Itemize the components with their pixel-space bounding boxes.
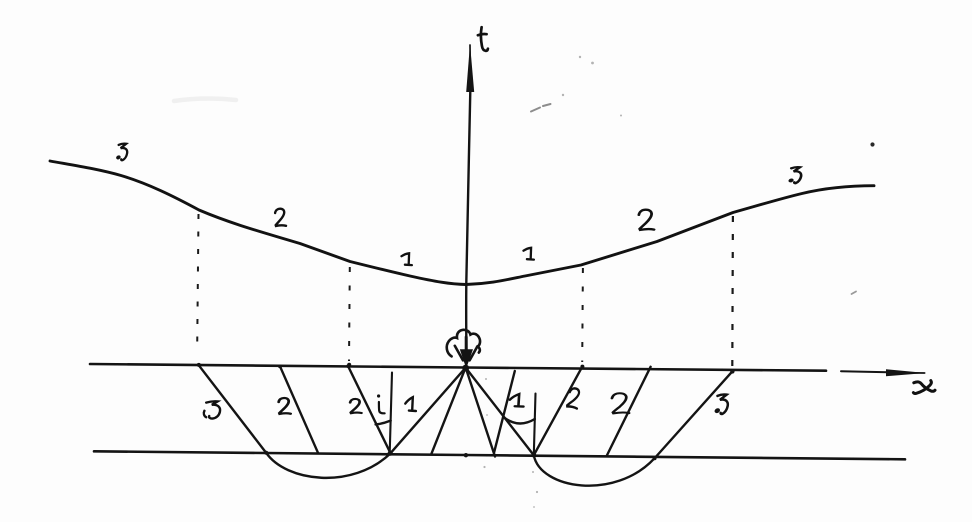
up-going ray 3 (left) xyxy=(199,365,266,452)
noise: small gray mark right xyxy=(852,292,857,295)
t-axis arrowhead xyxy=(466,44,474,92)
ray label 3 (lower left) xyxy=(204,401,220,418)
up-going ray 1 (right) xyxy=(494,371,515,453)
junction dot ray2a-surface (left) xyxy=(278,365,282,369)
down-going ray 2 (right) xyxy=(466,368,534,455)
up-going ray 3 (right) xyxy=(655,371,733,458)
x-axis arrowhead xyxy=(886,369,926,376)
ray label 2 (lower left, second) xyxy=(350,399,361,413)
curve segment label 1 (top left) xyxy=(402,253,412,265)
explosion center stem xyxy=(465,337,468,352)
junction dot right hub xyxy=(531,453,536,458)
x-axis gap segment xyxy=(841,371,888,372)
up-going ray 2b (right) xyxy=(607,367,651,456)
ray label 2 (lower right, first) xyxy=(566,387,581,408)
explosion inner stroke left xyxy=(455,346,463,361)
vertical reference line (right) xyxy=(534,394,536,456)
explosion cloud outline xyxy=(447,330,480,357)
angle label i (lower left) xyxy=(377,394,385,413)
dashed line D1 xyxy=(197,214,198,346)
junction dot arc left start xyxy=(264,451,268,455)
travel-time curve xyxy=(50,161,874,285)
curve segment label 2 (top left) xyxy=(275,209,286,226)
noise: gray scratch xyxy=(531,104,551,112)
diving-wave arc (left) xyxy=(266,453,391,478)
up-going ray 2b (left) xyxy=(348,366,391,453)
junction dot ray3-surface (left) xyxy=(197,363,201,367)
curve segment label 1 (top right) xyxy=(524,248,534,260)
x-axis surface line xyxy=(90,364,826,371)
ray label 1 (lower left) xyxy=(405,397,416,411)
source point blob xyxy=(462,365,469,372)
dashed line D2 xyxy=(348,267,351,361)
axis label t xyxy=(478,27,488,51)
curve segment label 3 (top left) xyxy=(115,144,127,161)
junction dot ray2b-surface (left) xyxy=(346,364,350,368)
vertical reference line (left) xyxy=(390,373,392,454)
ray label 3 (lower right) xyxy=(714,394,728,414)
dashed line D4 xyxy=(731,216,734,366)
junction dot interface below source xyxy=(464,453,468,457)
noise: light specks xyxy=(483,56,622,508)
curve segment label 3 (top right) xyxy=(788,167,802,183)
axis label x xyxy=(913,381,935,394)
junction dot D2-surface xyxy=(347,363,351,367)
lower interface line xyxy=(94,451,905,459)
junction dot arc right end xyxy=(653,456,657,460)
junction dot B (left hub) xyxy=(388,451,393,456)
junction dot D3-surface xyxy=(580,365,584,369)
ray label 2 (lower left, first) xyxy=(279,398,291,414)
noise: faint smudge top left xyxy=(174,98,236,101)
down-going ray to B (left) xyxy=(391,368,466,453)
explosion inner stroke right xyxy=(470,346,478,360)
junction dot ray3-surface (right) xyxy=(730,369,734,373)
dashed line D3 xyxy=(581,268,584,362)
up-going ray 2a (right) xyxy=(534,369,581,455)
ray label 2 (lower right, second) xyxy=(612,393,629,413)
incidence angle arc (right) xyxy=(505,418,535,424)
diving-wave arc (right) xyxy=(534,455,655,485)
noise: dark dot top right xyxy=(870,142,874,146)
source down arrowhead xyxy=(460,349,473,368)
t-axis vertical line xyxy=(466,91,470,349)
curve segment label 2 (top right) xyxy=(639,210,654,230)
ray label 1 (lower right) xyxy=(510,394,524,407)
critical angle arc i (left) xyxy=(376,421,391,425)
down-going ray 1 (right, steep) xyxy=(466,368,495,457)
down-going ray 2 (left) xyxy=(432,368,466,454)
up-going ray 2a (left) xyxy=(280,366,318,453)
